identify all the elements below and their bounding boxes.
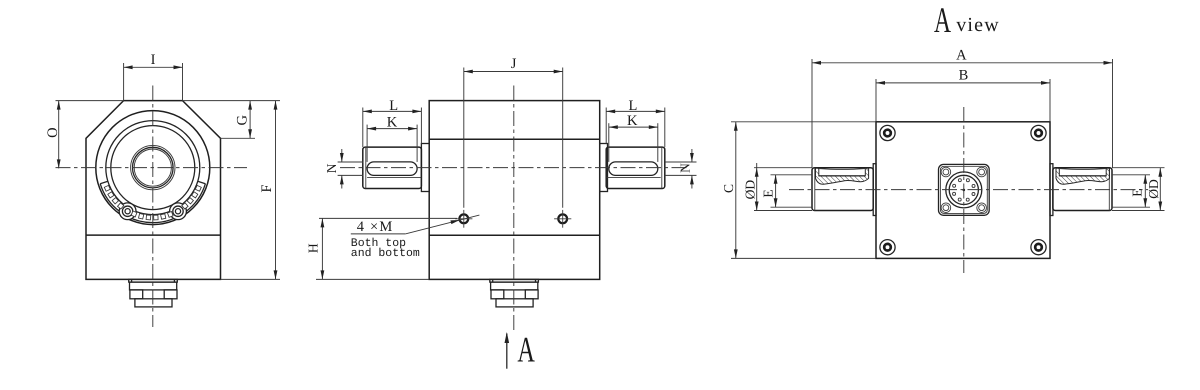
svg-text:ØD: ØD [1146, 179, 1161, 199]
svg-text:A: A [934, 0, 951, 40]
svg-text:L: L [628, 98, 637, 114]
svg-text:E: E [760, 189, 775, 197]
svg-text:ØD: ØD [743, 180, 758, 200]
svg-text:E: E [1129, 188, 1144, 196]
svg-text:H: H [305, 243, 320, 253]
svg-text:A: A [517, 330, 535, 370]
svg-text:view: view [956, 14, 1000, 36]
svg-text:A: A [956, 47, 967, 63]
svg-text:J: J [511, 56, 517, 72]
svg-text:and bottom: and bottom [351, 247, 420, 260]
svg-text:N: N [678, 163, 693, 173]
svg-text:N: N [324, 163, 339, 173]
svg-text:C: C [721, 184, 736, 193]
svg-text:I: I [151, 52, 156, 68]
svg-text:L: L [389, 98, 398, 114]
svg-text:K: K [627, 113, 638, 129]
svg-text:B: B [959, 68, 969, 84]
svg-text:4 ×M: 4 ×M [357, 219, 394, 235]
svg-text:G: G [234, 115, 250, 126]
svg-text:F: F [259, 184, 275, 192]
svg-text:O: O [45, 127, 61, 137]
svg-text:K: K [387, 114, 398, 130]
